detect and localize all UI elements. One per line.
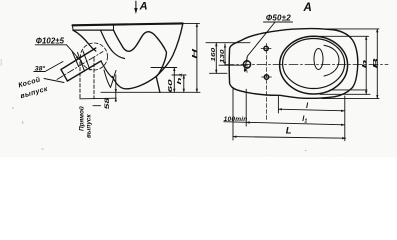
svg-text:L: L (286, 125, 292, 136)
svg-text:Ф102±5: Ф102±5 (36, 36, 65, 45)
svg-text:B: B (373, 58, 380, 68)
svg-text:100min: 100min (224, 116, 248, 123)
svg-text:58: 58 (103, 98, 110, 110)
svg-text:H: H (192, 48, 198, 58)
svg-text:выпуск: выпуск (85, 114, 92, 138)
svg-text:A: A (303, 2, 312, 14)
svg-text:b: b (362, 59, 369, 68)
svg-text:60: 60 (167, 78, 173, 92)
svg-text:Ф50±2: Ф50±2 (266, 14, 291, 23)
svg-text:A: A (139, 0, 148, 12)
svg-text:130: 130 (220, 49, 225, 63)
svg-text:160: 160 (211, 48, 216, 62)
svg-text:38°: 38° (35, 65, 46, 73)
